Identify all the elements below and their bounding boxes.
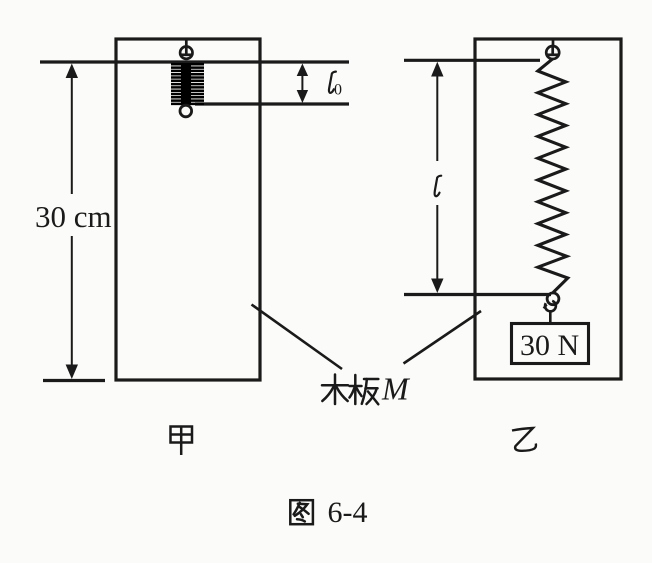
svg-text:30 N: 30 N bbox=[520, 329, 579, 362]
label ban (board) of 木板M bbox=[350, 375, 379, 404]
bottom reference line left panel (spring end) bbox=[195, 102, 349, 105]
label l0 bbox=[329, 72, 336, 93]
stretched spring zigzag (right) bbox=[538, 59, 568, 293]
board M right (panel yi) bbox=[475, 39, 621, 379]
dimension arrow 30 cm bbox=[66, 64, 78, 380]
dimension arrow l0 bbox=[297, 64, 308, 104]
svg-text:0: 0 bbox=[334, 82, 342, 99]
spring end loop circle right bbox=[547, 293, 559, 305]
bottom hook circle left spring bbox=[180, 105, 192, 117]
top reference line right panel bbox=[404, 59, 540, 62]
label yi (panel 2) bbox=[512, 428, 536, 451]
bottom reference line right panel bbox=[404, 293, 551, 296]
compressed spring coil (left) bbox=[171, 64, 204, 104]
pointer line from right board bbox=[404, 311, 482, 364]
svg-text:6-4: 6-4 bbox=[328, 496, 368, 529]
link to weight bbox=[549, 311, 552, 324]
pin top right spring bbox=[546, 39, 559, 59]
svg-text:M: M bbox=[381, 371, 411, 407]
weight box 30 N bbox=[512, 324, 589, 364]
board M left (panel jia) bbox=[116, 39, 260, 380]
top reference line left panel bbox=[40, 60, 349, 63]
bottom tick left panel bbox=[43, 379, 105, 382]
label jia (panel 1) bbox=[171, 426, 193, 456]
svg-text:30 cm: 30 cm bbox=[35, 199, 112, 234]
label mu (wood) of 木板M bbox=[322, 375, 348, 405]
caption tu (figure) bbox=[290, 500, 313, 524]
dimension arrow l bbox=[431, 62, 443, 293]
hook open circle bbox=[545, 301, 556, 312]
hook tail bbox=[544, 305, 547, 309]
coil center overlap bbox=[181, 63, 191, 105]
label l bbox=[435, 176, 442, 196]
pin top left spring bbox=[180, 39, 192, 59]
pointer line from left board bbox=[252, 305, 343, 370]
